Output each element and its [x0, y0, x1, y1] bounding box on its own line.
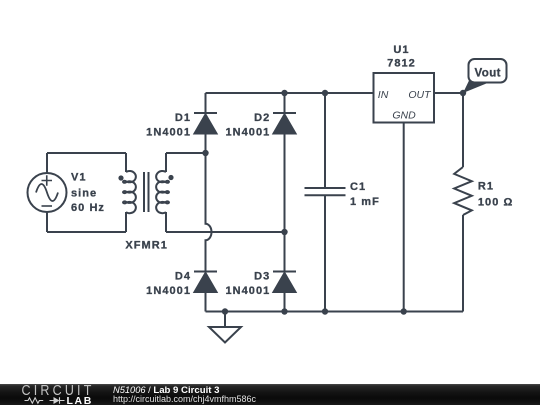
wire secondary top to bridge node A [166, 152, 206, 154]
wire R1 bottom lead [462, 215, 464, 312]
resistor R1 [454, 167, 472, 215]
svg-text:D4: D4 [175, 270, 191, 282]
diode D2 [273, 113, 296, 134]
svg-text:LAB: LAB [67, 395, 93, 405]
wire bottom of source loop [47, 231, 126, 233]
svg-text:Vout: Vout [475, 67, 501, 79]
label R1 value [478, 181, 513, 209]
diode D1 [194, 113, 217, 134]
wire OUT to Vout node [434, 92, 463, 94]
transformer secondary phase dot [168, 175, 173, 180]
wire D1 anode down to node A [205, 134, 207, 154]
svg-text:XFMR1: XFMR1 [125, 240, 168, 252]
wire D1 cathode to top rail [205, 93, 207, 113]
wire top rail [206, 92, 374, 94]
svg-text:R1: R1 [478, 181, 494, 193]
label U1 refdes [387, 44, 416, 70]
svg-text:sine: sine [71, 187, 97, 199]
wire R1 top lead [462, 93, 464, 167]
capacitor C1 [305, 93, 346, 312]
svg-text:D2: D2 [254, 112, 270, 124]
svg-text:IN: IN [378, 89, 389, 101]
junction dot C1 top rail [322, 90, 328, 96]
svg-text:1 mF: 1 mF [350, 196, 380, 208]
svg-text:7812: 7812 [387, 58, 416, 70]
wire D2 cathode to top rail [284, 93, 286, 113]
junction dot D3 bottom rail [281, 308, 287, 314]
transformer primary phase dot [118, 175, 123, 180]
voltage source V1 [28, 173, 67, 212]
wire V1 top lead [46, 153, 48, 173]
svg-text:U1: U1 [393, 44, 409, 56]
svg-text:D3: D3 [254, 270, 270, 282]
wire D4 anode to bottom rail [205, 292, 207, 312]
wire V1 bottom lead [46, 213, 48, 233]
wire secondary bottom to bridge node B [166, 231, 285, 233]
svg-text:GND: GND [392, 110, 416, 122]
wire bottom rail [206, 311, 464, 313]
logo resistor+diode glyph [25, 397, 65, 404]
label C1 value [350, 181, 380, 208]
node B junction dot [281, 229, 287, 235]
svg-text:1N4001: 1N4001 [225, 127, 270, 139]
regulator U1 7812 box [374, 73, 435, 123]
svg-text:C1: C1 [350, 181, 366, 193]
wire U1 GND to bottom rail [403, 123, 405, 312]
svg-text:http://circuitlab.com/chj4vmfh: http://circuitlab.com/chj4vmfhm586c [113, 394, 257, 404]
wire top of source loop [47, 152, 126, 154]
diode D4 [194, 272, 217, 293]
transformer XFMR1 primary coil [123, 171, 136, 213]
wire D2 anode to node B and on to D3 [284, 134, 286, 272]
svg-text:100 Ω: 100 Ω [478, 196, 513, 208]
footer bar [0, 384, 540, 405]
transformer core [144, 172, 149, 212]
svg-text:V1: V1 [71, 172, 87, 184]
junction dot C1 bottom rail [322, 308, 328, 314]
label D2 [225, 112, 270, 139]
svg-text:1N4001: 1N4001 [146, 285, 191, 297]
label D1 [146, 112, 191, 139]
wire secondary top lead [165, 153, 167, 172]
svg-text:1N4001: 1N4001 [225, 285, 270, 297]
wire secondary bottom lead [165, 212, 167, 232]
junction dot Vout node [460, 90, 466, 96]
svg-text:1N4001: 1N4001 [146, 127, 191, 139]
label V1 value [71, 172, 105, 214]
svg-text:D1: D1 [175, 112, 191, 124]
wire primary top lead [125, 153, 127, 172]
junction dot D2 top rail [281, 90, 287, 96]
wire primary bottom lead [125, 212, 127, 232]
junction dot U1 GND bottom rail [401, 308, 407, 314]
label D4 [146, 270, 191, 297]
Vout flag [463, 59, 507, 93]
ground [209, 312, 241, 343]
label D3 [225, 270, 270, 297]
junction dot ground [222, 308, 228, 314]
wire node A down with hop over bottom AC wire [206, 153, 212, 272]
svg-text:OUT: OUT [408, 89, 432, 101]
transformer XFMR1 secondary coil [156, 171, 169, 213]
node A junction dot [202, 150, 208, 156]
svg-text:60 Hz: 60 Hz [71, 202, 105, 214]
wire D3 anode to bottom rail [284, 292, 286, 312]
diode D3 [273, 272, 296, 293]
